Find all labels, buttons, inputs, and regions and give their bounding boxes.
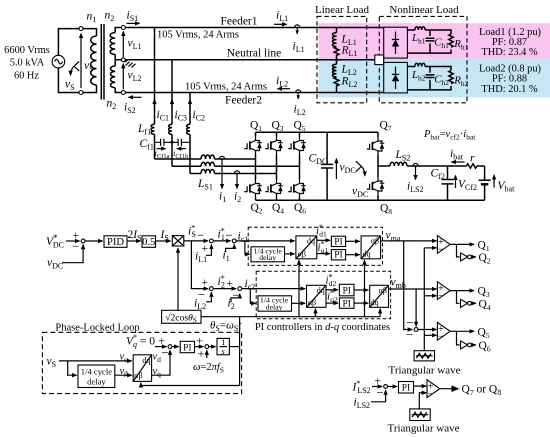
svg-text:ω=2πfS: ω=2πfS bbox=[193, 362, 224, 374]
svg-text:PI: PI bbox=[334, 251, 342, 261]
svg-text:PI: PI bbox=[342, 299, 350, 309]
svg-text:Neutral line: Neutral line bbox=[227, 48, 282, 60]
svg-text:PID: PID bbox=[107, 237, 124, 248]
svg-text:αβ: αβ bbox=[134, 371, 142, 380]
svg-text:−: − bbox=[225, 228, 232, 243]
svg-text:dq: dq bbox=[371, 298, 379, 307]
svg-text:r: r bbox=[470, 153, 475, 165]
svg-text:−: − bbox=[232, 288, 239, 303]
svg-text:delay: delay bbox=[259, 253, 276, 262]
svg-text:THD: 20.1 %: THD: 20.1 % bbox=[481, 84, 538, 95]
svg-text:Triangular wave: Triangular wave bbox=[389, 365, 461, 377]
svg-text:6600 Vrms: 6600 Vrms bbox=[4, 45, 50, 56]
svg-text:dq: dq bbox=[142, 356, 150, 365]
svg-text:105 Vrms, 24 Arms: 105 Vrms, 24 Arms bbox=[185, 82, 267, 93]
svg-text:PI: PI bbox=[334, 237, 342, 247]
svg-text:dq: dq bbox=[307, 237, 315, 246]
svg-text:PI: PI bbox=[183, 343, 191, 353]
svg-text:60 Hz: 60 Hz bbox=[14, 70, 39, 81]
svg-text:0.5: 0.5 bbox=[142, 237, 155, 248]
svg-text:i*S: i*S bbox=[188, 224, 196, 240]
svg-text:αβ: αβ bbox=[298, 250, 306, 259]
svg-text:Feeder1: Feeder1 bbox=[220, 16, 257, 28]
svg-text:Q7 or Q8: Q7 or Q8 bbox=[462, 384, 502, 398]
svg-text:Linear Load: Linear Load bbox=[315, 4, 370, 16]
svg-text:THD: 23.4 %: THD: 23.4 % bbox=[481, 47, 538, 58]
svg-text:−: − bbox=[406, 327, 413, 342]
svg-text:−: − bbox=[438, 245, 444, 256]
svg-text:−: − bbox=[427, 389, 433, 400]
svg-text:αβ: αβ bbox=[379, 286, 387, 295]
svg-text:Nonlinear Load: Nonlinear Load bbox=[389, 4, 459, 16]
svg-text:√2cosθS: √2cosθS bbox=[165, 312, 197, 324]
svg-text:−: − bbox=[376, 385, 383, 400]
svg-text:−: − bbox=[198, 287, 205, 302]
svg-text:αβ: αβ bbox=[308, 298, 316, 307]
svg-text:−: − bbox=[161, 345, 168, 360]
svg-text:i*1: i*1 bbox=[218, 227, 225, 243]
svg-text:+: + bbox=[198, 347, 205, 361]
svg-text:−: − bbox=[438, 332, 444, 343]
svg-text:−: − bbox=[438, 291, 444, 302]
svg-text:V*q = 0: V*q = 0 bbox=[126, 333, 155, 349]
svg-text:PF: 0.88: PF: 0.88 bbox=[492, 74, 527, 85]
svg-text:αβ: αβ bbox=[371, 237, 379, 246]
svg-text:θS=ωSt: θS=ωSt bbox=[210, 320, 242, 334]
svg-text:105 Vrms, 24 Arms: 105 Vrms, 24 Arms bbox=[157, 30, 239, 41]
svg-text:5.0 kVA: 5.0 kVA bbox=[10, 58, 45, 69]
svg-text:Feeder2: Feeder2 bbox=[225, 95, 262, 107]
svg-text:PI: PI bbox=[342, 286, 350, 296]
svg-text:1/4 cycle: 1/4 cycle bbox=[81, 366, 112, 376]
svg-text:PI controllers in d-q coordina: PI controllers in d-q coordinates bbox=[255, 322, 390, 333]
svg-text:i*2: i*2 bbox=[218, 274, 225, 290]
svg-text:dq: dq bbox=[363, 250, 371, 259]
svg-text:dq: dq bbox=[317, 286, 325, 295]
svg-text:+: + bbox=[196, 334, 203, 348]
svg-text:PI: PI bbox=[402, 384, 410, 394]
svg-text:−: − bbox=[72, 238, 79, 253]
svg-text:delay: delay bbox=[266, 302, 283, 311]
svg-text:+: + bbox=[201, 241, 208, 255]
svg-text:delay: delay bbox=[87, 376, 106, 386]
svg-text:Triangular wave: Triangular wave bbox=[388, 423, 460, 435]
